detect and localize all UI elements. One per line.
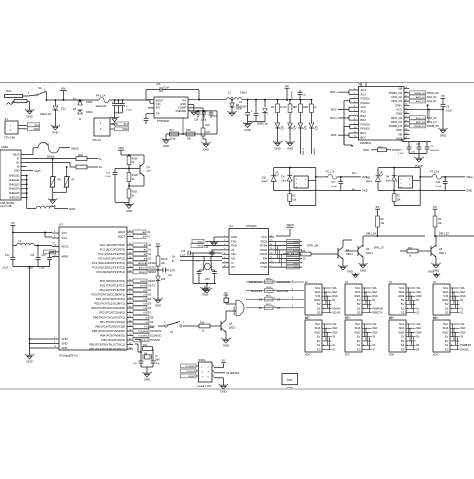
svg-text:SCL: SCL	[315, 286, 321, 290]
svg-text:GND: GND	[274, 146, 280, 150]
svg-text:BO1: BO1	[361, 131, 367, 135]
svg-text:sensor: sensor	[286, 386, 293, 389]
svg-text:DCD#: DCD#	[260, 252, 268, 256]
svg-text:S2: S2	[445, 310, 449, 314]
svg-text:KD7: KD7	[345, 353, 350, 356]
svg-text:GND: GND	[148, 325, 154, 329]
svg-text:AVCC: AVCC	[62, 245, 69, 249]
svg-text:V3: V3	[231, 248, 235, 252]
svg-text:SDA: SDA	[416, 327, 421, 330]
svg-text:F1: F1	[46, 142, 50, 146]
svg-text:SCL: SCL	[372, 287, 377, 290]
svg-text:TTA-24W: TTA-24W	[4, 136, 16, 140]
svg-text:BIN1_D3: BIN1_D3	[416, 118, 426, 120]
svg-text:S1: S1	[317, 306, 321, 310]
svg-text:SCL/A5: SCL/A5	[332, 311, 341, 314]
svg-text:VBUS: VBUS	[71, 146, 79, 150]
svg-text:GND: GND	[62, 342, 68, 346]
svg-text:2.2uF: 2.2uF	[28, 267, 34, 269]
svg-text:D1/TX: D1/TX	[148, 285, 155, 288]
svg-text:PC4 (ADC4/SDA/PCINT12): PC4 (ADC4/SDA/PCINT12)	[92, 261, 125, 265]
svg-text:SCL: SCL	[443, 286, 449, 290]
svg-text:PB3 (PCINT3/OC1A/MOSI): PB3 (PCINT3/OC1A/MOSI)	[92, 329, 125, 333]
svg-text:S2: S2	[317, 347, 321, 351]
svg-text:C14: C14	[204, 247, 209, 249]
svg-text:PD3 (PCINT19/OC2B/INT1): PD3 (PCINT19/OC2B/INT1)	[92, 293, 126, 297]
svg-text:SCL: SCL	[372, 323, 377, 326]
svg-text:D12: D12	[61, 107, 66, 111]
svg-text:M1-: M1-	[352, 188, 356, 191]
svg-text:AIN2_D2: AIN2_D2	[391, 95, 402, 99]
svg-text:D11/MOSI: D11/MOSI	[138, 331, 148, 333]
svg-text:PGND1: PGND1	[361, 101, 371, 105]
svg-text:100uF/16V: 100uF/16V	[96, 106, 108, 108]
svg-text:PC5 (ADC5/SCL/PCINT13): PC5 (ADC5/SCL/PCINT13)	[92, 266, 125, 270]
svg-text:D-: D-	[17, 158, 20, 161]
svg-text:SHIELD3: SHIELD3	[9, 183, 20, 186]
svg-text:5V: 5V	[416, 299, 419, 302]
svg-text:PB5 (SCK/PCINT5): PB5 (SCK/PCINT5)	[102, 338, 126, 342]
svg-text:SCL: SCL	[399, 286, 405, 290]
svg-text:DSCD: DSCD	[161, 259, 168, 261]
svg-text:PWMA_D6: PWMA_D6	[414, 92, 426, 95]
svg-text:S9013: S9013	[439, 253, 446, 255]
svg-text:RESET: RESET	[148, 271, 157, 274]
svg-text:PD7 (PCINT23/AIN1): PD7 (PCINT23/AIN1)	[99, 311, 125, 315]
svg-text:GND: GND	[442, 330, 448, 334]
svg-text:S2: S2	[445, 347, 449, 351]
svg-text:GND: GND	[428, 270, 434, 274]
svg-text:VIN: VIN	[61, 87, 66, 91]
svg-text:SCL: SCL	[355, 322, 361, 326]
svg-text:PB7 (PCINT7/XTAL2/TOSC2): PB7 (PCINT7/XTAL2/TOSC2)	[89, 347, 125, 351]
svg-text:VM2+: VM2+	[466, 175, 473, 179]
svg-text:5V: 5V	[357, 302, 361, 306]
svg-text:120p: 120p	[201, 120, 207, 122]
svg-text:SHIELD1: SHIELD1	[9, 175, 20, 178]
svg-text:AO2: AO2	[361, 105, 367, 109]
svg-text:XI: XI	[231, 261, 234, 265]
svg-text:R17: R17	[170, 129, 175, 132]
svg-text:3TA-1A: 3TA-1A	[92, 138, 101, 142]
svg-text:5V: 5V	[357, 339, 361, 343]
svg-text:S1: S1	[317, 343, 321, 347]
svg-text:SDA: SDA	[443, 326, 449, 330]
svg-text:PWMB/D5: PWMB/D5	[460, 345, 471, 347]
svg-text:TXD: TXD	[231, 239, 236, 243]
svg-text:SHIELD4: SHIELD4	[9, 188, 20, 191]
svg-text:GND: GND	[363, 148, 369, 152]
svg-text:VCC: VCC	[62, 231, 68, 235]
svg-text:Button/A3: Button/A3	[277, 290, 289, 293]
svg-text:CTS1: CTS1	[293, 267, 299, 269]
svg-text:PB6 (PCINT6/XTAL1/TOSC1): PB6 (PCINT6/XTAL1/TOSC1)	[89, 343, 125, 347]
svg-text:Button/A3: Button/A3	[251, 290, 263, 293]
svg-text:9012: 9012	[147, 171, 153, 173]
svg-text:GND: GND	[460, 331, 466, 334]
svg-text:SDA: SDA	[332, 291, 337, 294]
svg-text:MO1-: MO1-	[331, 108, 337, 111]
svg-text:GND: GND	[223, 343, 229, 347]
svg-text:5V: 5V	[460, 299, 463, 302]
svg-text:100uF/50V: 100uF/50V	[236, 107, 248, 109]
svg-text:KD9: KD9	[433, 353, 438, 356]
svg-text:S1: S1	[445, 306, 449, 310]
svg-text:5V: 5V	[11, 221, 15, 225]
svg-text:D0/RX: D0/RX	[148, 280, 155, 283]
svg-text:C12: C12	[30, 255, 35, 257]
svg-text:GND: GND	[144, 377, 150, 381]
svg-text:DIR1_D7: DIR1_D7	[439, 233, 450, 236]
svg-text:6.8uH: 6.8uH	[240, 92, 247, 95]
svg-text:SHIELD5: SHIELD5	[9, 192, 20, 195]
svg-text:BOOT: BOOT	[156, 99, 164, 103]
svg-text:SS34: SS34	[86, 100, 93, 104]
svg-text:SS: SS	[156, 112, 160, 116]
svg-text:SDA: SDA	[399, 326, 405, 330]
svg-text:0.1uF: 0.1uF	[39, 267, 45, 269]
svg-text:5V: 5V	[357, 335, 361, 339]
svg-text:D12/MISO: D12/MISO	[186, 366, 196, 368]
svg-text:R10A: R10A	[132, 158, 138, 161]
svg-text:BO1: BO1	[361, 135, 367, 139]
svg-text:5V: 5V	[156, 242, 160, 246]
svg-text:SDA: SDA	[355, 326, 361, 330]
svg-text:TPS54331: TPS54331	[157, 119, 170, 123]
svg-text:AIN1_D1: AIN1_D1	[427, 100, 437, 103]
svg-text:green: green	[262, 180, 269, 183]
svg-text:SDA: SDA	[315, 326, 321, 330]
svg-text:U1: U1	[358, 82, 362, 86]
svg-text:AIN1_D1: AIN1_D1	[416, 100, 426, 103]
svg-text:A4/SDA: A4/SDA	[139, 262, 147, 265]
svg-text:D-: D-	[172, 259, 175, 263]
svg-text:SCL: SCL	[332, 287, 337, 290]
svg-text:green: green	[366, 180, 373, 183]
svg-text:SCL: SCL	[460, 287, 465, 290]
svg-text:A4/SDA: A4/SDA	[148, 262, 157, 265]
svg-text:5V: 5V	[401, 298, 405, 302]
svg-text:GND: GND	[126, 209, 132, 213]
svg-text:GND: GND	[33, 128, 39, 131]
svg-text:PD2 (INT0/PCINT18): PD2 (INT0/PCINT18)	[100, 288, 125, 292]
svg-text:S1: S1	[38, 86, 42, 90]
svg-text:RN1D: RN1D	[266, 304, 272, 306]
svg-text:R15: R15	[301, 251, 306, 253]
svg-text:GND: GND	[202, 292, 208, 296]
svg-text:PB4 (PCINT4/MISO): PB4 (PCINT4/MISO)	[100, 334, 125, 338]
svg-text:DSR1: DSR1	[293, 263, 300, 265]
svg-text:PWMA/D6: PWMA/D6	[372, 307, 383, 310]
svg-text:BIN1_D3: BIN1_D3	[427, 117, 437, 120]
svg-text:blue: blue	[386, 179, 391, 182]
svg-text:DC1: DC1	[6, 89, 12, 93]
svg-text:D10: D10	[262, 176, 267, 179]
svg-text:RESET: RESET	[139, 272, 147, 274]
svg-text:RN1: RN1	[78, 154, 83, 157]
svg-text:DTR: DTR	[170, 268, 175, 272]
svg-text:GND: GND	[354, 294, 360, 298]
svg-text:BIN1_D3: BIN1_D3	[391, 116, 402, 120]
svg-text:EN: EN	[156, 106, 160, 110]
svg-text:AIN2_D2: AIN2_D2	[427, 96, 437, 99]
svg-text:PWMA_D6: PWMA_D6	[389, 91, 403, 95]
svg-text:GND: GND	[287, 146, 293, 150]
svg-text:KD6: KD6	[305, 353, 310, 356]
svg-text:SDA: SDA	[416, 291, 421, 294]
svg-text:AO2: AO2	[361, 110, 367, 114]
svg-text:VCC: VCC	[261, 235, 267, 239]
svg-text:GND: GND	[220, 389, 226, 393]
svg-text:D11/MOSI2: D11/MOSI2	[249, 281, 263, 284]
svg-text:RTS#: RTS#	[260, 244, 267, 248]
svg-text:USB1: USB1	[1, 145, 9, 149]
svg-text:VIN: VIN	[156, 102, 160, 106]
svg-text:GND: GND	[52, 130, 58, 134]
svg-text:PWMB_D5: PWMB_D5	[389, 124, 403, 128]
svg-text:0.1uF: 0.1uF	[2, 267, 8, 269]
svg-text:DTR1_D4: DTR1_D4	[307, 245, 319, 248]
svg-text:GND: GND	[180, 102, 186, 106]
svg-text:DTR1: DTR1	[293, 250, 299, 252]
svg-text:S9013: S9013	[366, 253, 373, 255]
svg-text:PWMB_D5: PWMB_D5	[414, 126, 426, 128]
svg-text:CTS#: CTS#	[260, 265, 267, 269]
svg-text:SDA: SDA	[460, 327, 465, 330]
svg-text:D13/SCK: D13/SCK	[291, 91, 293, 100]
svg-text:GND: GND	[50, 204, 56, 208]
svg-text:VBU: VBU	[118, 146, 124, 150]
svg-text:PWMB_D5: PWMB_D5	[427, 125, 440, 128]
svg-text:F4 1.1A: F4 1.1A	[96, 93, 106, 97]
svg-text:STBY: STBY	[395, 103, 402, 107]
svg-text:SDA: SDA	[399, 290, 405, 294]
svg-text:5V: 5V	[317, 335, 321, 339]
svg-text:5V: 5V	[401, 302, 405, 306]
svg-text:micro USB: micro USB	[0, 205, 12, 208]
svg-text:D+: D+	[99, 165, 103, 169]
svg-text:PWMA_D6: PWMA_D6	[427, 92, 440, 95]
svg-text:C20: C20	[194, 120, 199, 122]
svg-text:PC2 (ADC2/PCINT10): PC2 (ADC2/PCINT10)	[98, 252, 125, 256]
svg-text:C11: C11	[156, 82, 161, 86]
svg-text:D13/SCK: D13/SCK	[139, 340, 149, 342]
svg-text:SCL: SCL	[443, 322, 449, 326]
svg-text:SDA: SDA	[315, 290, 321, 294]
svg-text:D13/SCK: D13/SCK	[150, 339, 160, 342]
svg-text:C11: C11	[5, 255, 10, 257]
svg-text:GND: GND	[440, 133, 446, 137]
svg-text:D11/MOSI2: D11/MOSI2	[226, 372, 240, 375]
svg-text:SCL: SCL	[460, 323, 465, 326]
svg-text:SCL: SCL	[315, 322, 321, 326]
svg-text:5V: 5V	[445, 335, 449, 339]
svg-text:GND: GND	[122, 128, 128, 131]
svg-text:D+: D+	[16, 162, 20, 165]
svg-text:D1/TX: D1/TX	[140, 286, 147, 288]
svg-text:C16: C16	[181, 251, 186, 253]
svg-text:PC6 (RESET/PCINT14): PC6 (RESET/PCINT14)	[96, 270, 125, 274]
svg-text:5V: 5V	[460, 336, 463, 339]
svg-text:A5/SCL: A5/SCL	[148, 267, 157, 270]
svg-text:SS34: SS34	[86, 110, 93, 114]
svg-text:RN1A: RN1A	[266, 277, 272, 280]
svg-text:D13: D13	[161, 279, 166, 281]
svg-text:V-M: V-M	[315, 294, 321, 298]
svg-text:S1: S1	[357, 343, 361, 347]
svg-text:S1: S1	[357, 306, 361, 310]
svg-text:BO2: BO2	[361, 114, 367, 118]
svg-text:S2: S2	[357, 310, 361, 314]
svg-text:5V: 5V	[416, 336, 419, 339]
svg-text:R232: R232	[294, 241, 300, 243]
svg-text:MO1+: MO1+	[330, 91, 337, 94]
svg-text:0.1uF: 0.1uF	[126, 110, 132, 112]
svg-text:PGND2: PGND2	[361, 127, 371, 131]
svg-text:5V: 5V	[357, 298, 361, 302]
svg-text:GND: GND	[396, 112, 402, 116]
svg-text:PD0 (RXD/PCINT16): PD0 (RXD/PCINT16)	[100, 279, 125, 283]
svg-text:D0/TX1: D0/TX1	[303, 147, 305, 155]
svg-text:SDA: SDA	[372, 327, 377, 330]
svg-text:S1: S1	[445, 343, 449, 347]
svg-text:V14: V14	[124, 123, 129, 126]
svg-text:GND: GND	[332, 295, 338, 298]
svg-text:SDA: SDA	[443, 290, 449, 294]
svg-text:GND: GND	[62, 346, 68, 350]
svg-text:GND: GND	[354, 330, 360, 334]
svg-text:GND: GND	[163, 144, 169, 148]
svg-text:5V: 5V	[441, 94, 445, 98]
svg-text:RN1B: RN1B	[266, 287, 272, 289]
svg-text:5V: 5V	[401, 335, 405, 339]
svg-text:GND: GND	[396, 128, 402, 132]
svg-text:1uF: 1uF	[168, 275, 173, 277]
svg-text:XO: XO	[231, 265, 235, 269]
svg-text:GND: GND	[35, 169, 41, 173]
svg-text:M1+: M1+	[352, 172, 357, 175]
svg-text:VCC: VCC	[62, 236, 68, 240]
svg-text:SCL: SCL	[332, 323, 337, 326]
svg-text:RESET: RESET	[188, 376, 196, 378]
svg-text:GND: GND	[26, 359, 32, 363]
svg-text:PC3 (ADC3/PCINT11): PC3 (ADC3/PCINT11)	[98, 257, 125, 261]
svg-text:VCC: VCC	[396, 107, 402, 111]
svg-text:GND: GND	[372, 295, 378, 298]
svg-text:AIN2_D2: AIN2_D2	[416, 96, 426, 99]
svg-text:DSR#: DSR#	[260, 261, 268, 265]
svg-text:ICSP1: ICSP1	[198, 358, 206, 362]
svg-text:ATmega328-AU: ATmega328-AU	[59, 354, 78, 358]
svg-text:R232: R232	[261, 239, 268, 243]
svg-text:PD6 (PCINT22/OC0A/AIN0): PD6 (PCINT22/OC0A/AIN0)	[91, 306, 125, 310]
svg-text:SHIELD6: SHIELD6	[9, 197, 20, 200]
svg-text:V-M: V-M	[443, 294, 449, 298]
svg-text:RTS1: RTS1	[293, 246, 299, 248]
svg-text:RN1C: RN1C	[266, 296, 272, 298]
svg-text:DTR#: DTR#	[260, 248, 268, 252]
svg-text:PD4 (PCINT20/XCK/T0): PD4 (PCINT20/XCK/T0)	[96, 297, 125, 301]
svg-text:5V: 5V	[222, 358, 225, 362]
svg-text:RXD: RXD	[231, 244, 237, 248]
svg-text:0.1uF: 0.1uF	[105, 176, 111, 178]
svg-text:ADC7: ADC7	[118, 235, 126, 239]
svg-text:GND: GND	[398, 294, 404, 298]
svg-text:5V: 5V	[445, 302, 449, 306]
svg-text:BO2: BO2	[361, 118, 367, 122]
svg-text:V14: V14	[35, 124, 40, 127]
svg-text:5V: 5V	[376, 205, 380, 209]
svg-text:PGND: PGND	[392, 148, 400, 152]
svg-text:DTR1_D4: DTR1_D4	[283, 253, 295, 256]
svg-text:5V/GND: 5V/GND	[460, 349, 469, 351]
svg-text:D13/SCK: D13/SCK	[187, 371, 196, 373]
svg-text:GND: GND	[466, 189, 472, 193]
svg-text:R10B: R10B	[132, 175, 138, 177]
svg-text:GND: GND	[14, 170, 20, 173]
svg-text:GND: GND	[314, 298, 320, 302]
svg-text:5V: 5V	[332, 299, 335, 302]
svg-text:GND: GND	[416, 295, 422, 298]
svg-text:D0/RX: D0/RX	[140, 281, 147, 283]
svg-text:5V: 5V	[285, 84, 289, 88]
svg-text:D12/MISO: D12/MISO	[150, 335, 161, 338]
svg-text:PC0 (ADC0/PCINT8): PC0 (ADC0/PCINT8)	[100, 243, 125, 247]
svg-text:D-: D-	[99, 157, 102, 161]
svg-text:F5 1.1A: F5 1.1A	[326, 170, 335, 173]
svg-text:PGND2: PGND2	[361, 122, 371, 126]
svg-text:5V: 5V	[317, 302, 321, 306]
svg-text:SMAJ-3A: SMAJ-3A	[40, 112, 51, 116]
svg-text:GND: GND	[460, 295, 466, 298]
svg-text:V-M: V-M	[416, 144, 420, 146]
svg-text:GND: GND	[332, 331, 338, 334]
svg-text:TXD1: TXD1	[197, 246, 203, 248]
svg-text:S2: S2	[317, 310, 321, 314]
svg-text:GND: GND	[360, 268, 366, 272]
svg-text:2.2uF: 2.2uF	[398, 153, 404, 155]
svg-text:C18: C18	[436, 182, 441, 184]
svg-text:UD+: UD+	[231, 252, 237, 256]
svg-text:GND: GND	[314, 330, 320, 334]
svg-text:D12/MISO: D12/MISO	[138, 336, 149, 338]
svg-text:RI#: RI#	[263, 257, 268, 261]
svg-text:DIR2_D4: DIR2_D4	[366, 233, 377, 236]
svg-text:D11: D11	[366, 176, 371, 179]
svg-text:GND: GND	[244, 128, 250, 132]
svg-text:GND: GND	[416, 331, 422, 334]
svg-text:DRV8833: DRV8833	[360, 142, 371, 145]
svg-text:PB0 (PCINT0/CLKO/ICP1): PB0 (PCINT0/CLKO/ICP1)	[93, 316, 125, 320]
svg-text:SDA: SDA	[460, 291, 465, 294]
svg-text:F7 1.1A: F7 1.1A	[430, 170, 439, 173]
svg-text:RXD1: RXD1	[197, 241, 204, 243]
svg-text:GND: GND	[62, 337, 68, 341]
svg-text:GND: GND	[398, 330, 404, 334]
svg-text:5V: 5V	[445, 339, 449, 343]
svg-text:SHIELD2: SHIELD2	[9, 179, 20, 182]
svg-text:R12: R12	[408, 248, 413, 250]
svg-text:GND: GND	[372, 331, 378, 334]
svg-text:GND: GND	[347, 270, 353, 274]
svg-text:SMBJ5.0A: SMBJ5.0A	[257, 122, 268, 125]
svg-text:DIRECTX: DIRECTX	[372, 312, 383, 314]
svg-text:D11/MOSI2: D11/MOSI2	[277, 281, 291, 284]
svg-text:GND: GND	[231, 235, 237, 239]
svg-text:GND: GND	[155, 303, 161, 307]
svg-text:C17: C17	[331, 182, 336, 184]
svg-text:5V: 5V	[317, 339, 321, 343]
